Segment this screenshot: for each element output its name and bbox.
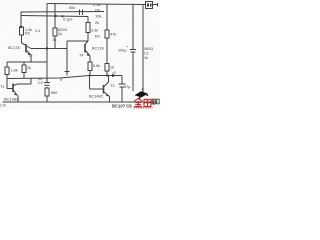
svg-text:C1: C1 — [144, 52, 149, 56]
svg-text:1.8k: 1.8k — [11, 69, 18, 73]
svg-text:T3: T3 — [110, 84, 114, 88]
svg-text:0.4: 0.4 — [35, 29, 40, 33]
svg-text:1k: 1k — [110, 66, 114, 70]
svg-text:BC178: BC178 — [8, 46, 20, 50]
svg-text:Ωk: Ωk — [95, 8, 100, 13]
svg-text:3k: 3k — [53, 38, 57, 42]
svg-text:C2: C2 — [38, 81, 43, 85]
svg-text:10k: 10k — [95, 14, 101, 19]
svg-text:2k: 2k — [27, 66, 31, 70]
svg-text:T2: T2 — [28, 54, 32, 58]
svg-text:3.3k: 3.3k — [91, 29, 98, 33]
svg-text:R2: R2 — [25, 32, 30, 36]
svg-text:BC148C: BC148C — [89, 95, 104, 99]
svg-text:T1: T1 — [0, 85, 4, 89]
svg-text:2.7k: 2.7k — [0, 104, 6, 108]
svg-text:2k: 2k — [95, 20, 99, 25]
svg-text:+2: +2 — [112, 71, 116, 75]
svg-text:80k: 80k — [69, 6, 75, 10]
svg-text:560: 560 — [51, 91, 57, 95]
svg-text:1k: 1k — [59, 77, 63, 81]
svg-text:T4: T4 — [79, 54, 83, 58]
svg-text:0.1μF: 0.1μF — [63, 18, 73, 22]
svg-text:BC108C: BC108C — [4, 97, 19, 102]
svg-text:1k: 1k — [144, 56, 148, 60]
svg-text:5.6k: 5.6k — [93, 64, 100, 68]
svg-text:47k: 47k — [110, 33, 116, 37]
svg-text:BC107 C8: BC107 C8 — [112, 104, 132, 109]
svg-text:Ro: Ro — [95, 35, 100, 39]
svg-text:47μ: 47μ — [124, 85, 130, 89]
svg-text:100μ: 100μ — [118, 49, 127, 53]
svg-text:560Ω: 560Ω — [144, 47, 153, 51]
svg-text:2.2k: 2.2k — [93, 2, 101, 7]
svg-text:1k: 1k — [58, 32, 62, 36]
svg-text:BC178: BC178 — [92, 47, 104, 51]
